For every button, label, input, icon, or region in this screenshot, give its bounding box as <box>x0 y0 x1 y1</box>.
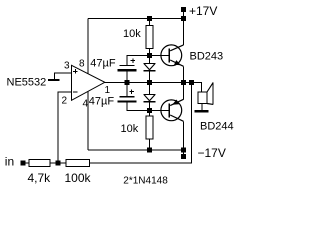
svg-text:47µF: 47µF <box>89 96 115 108</box>
svg-text:10k: 10k <box>121 123 139 135</box>
svg-text:2: 2 <box>62 96 68 107</box>
svg-text:4: 4 <box>83 98 89 109</box>
svg-text:47µF: 47µF <box>90 58 116 70</box>
svg-text:−17V: −17V <box>198 146 226 160</box>
svg-text:3: 3 <box>64 61 70 72</box>
svg-text:NE5532: NE5532 <box>7 77 47 89</box>
svg-text:8: 8 <box>79 59 85 70</box>
svg-text:10k: 10k <box>123 28 141 40</box>
svg-text:1: 1 <box>105 85 111 96</box>
svg-text:2*1N4148: 2*1N4148 <box>123 176 168 187</box>
svg-text:+17V: +17V <box>189 4 217 18</box>
svg-text:100k: 100k <box>65 171 92 185</box>
svg-text:in: in <box>5 155 14 169</box>
svg-text:BD243: BD243 <box>190 51 224 63</box>
svg-text:BD244: BD244 <box>200 121 234 133</box>
svg-text:4,7k: 4,7k <box>28 171 52 185</box>
